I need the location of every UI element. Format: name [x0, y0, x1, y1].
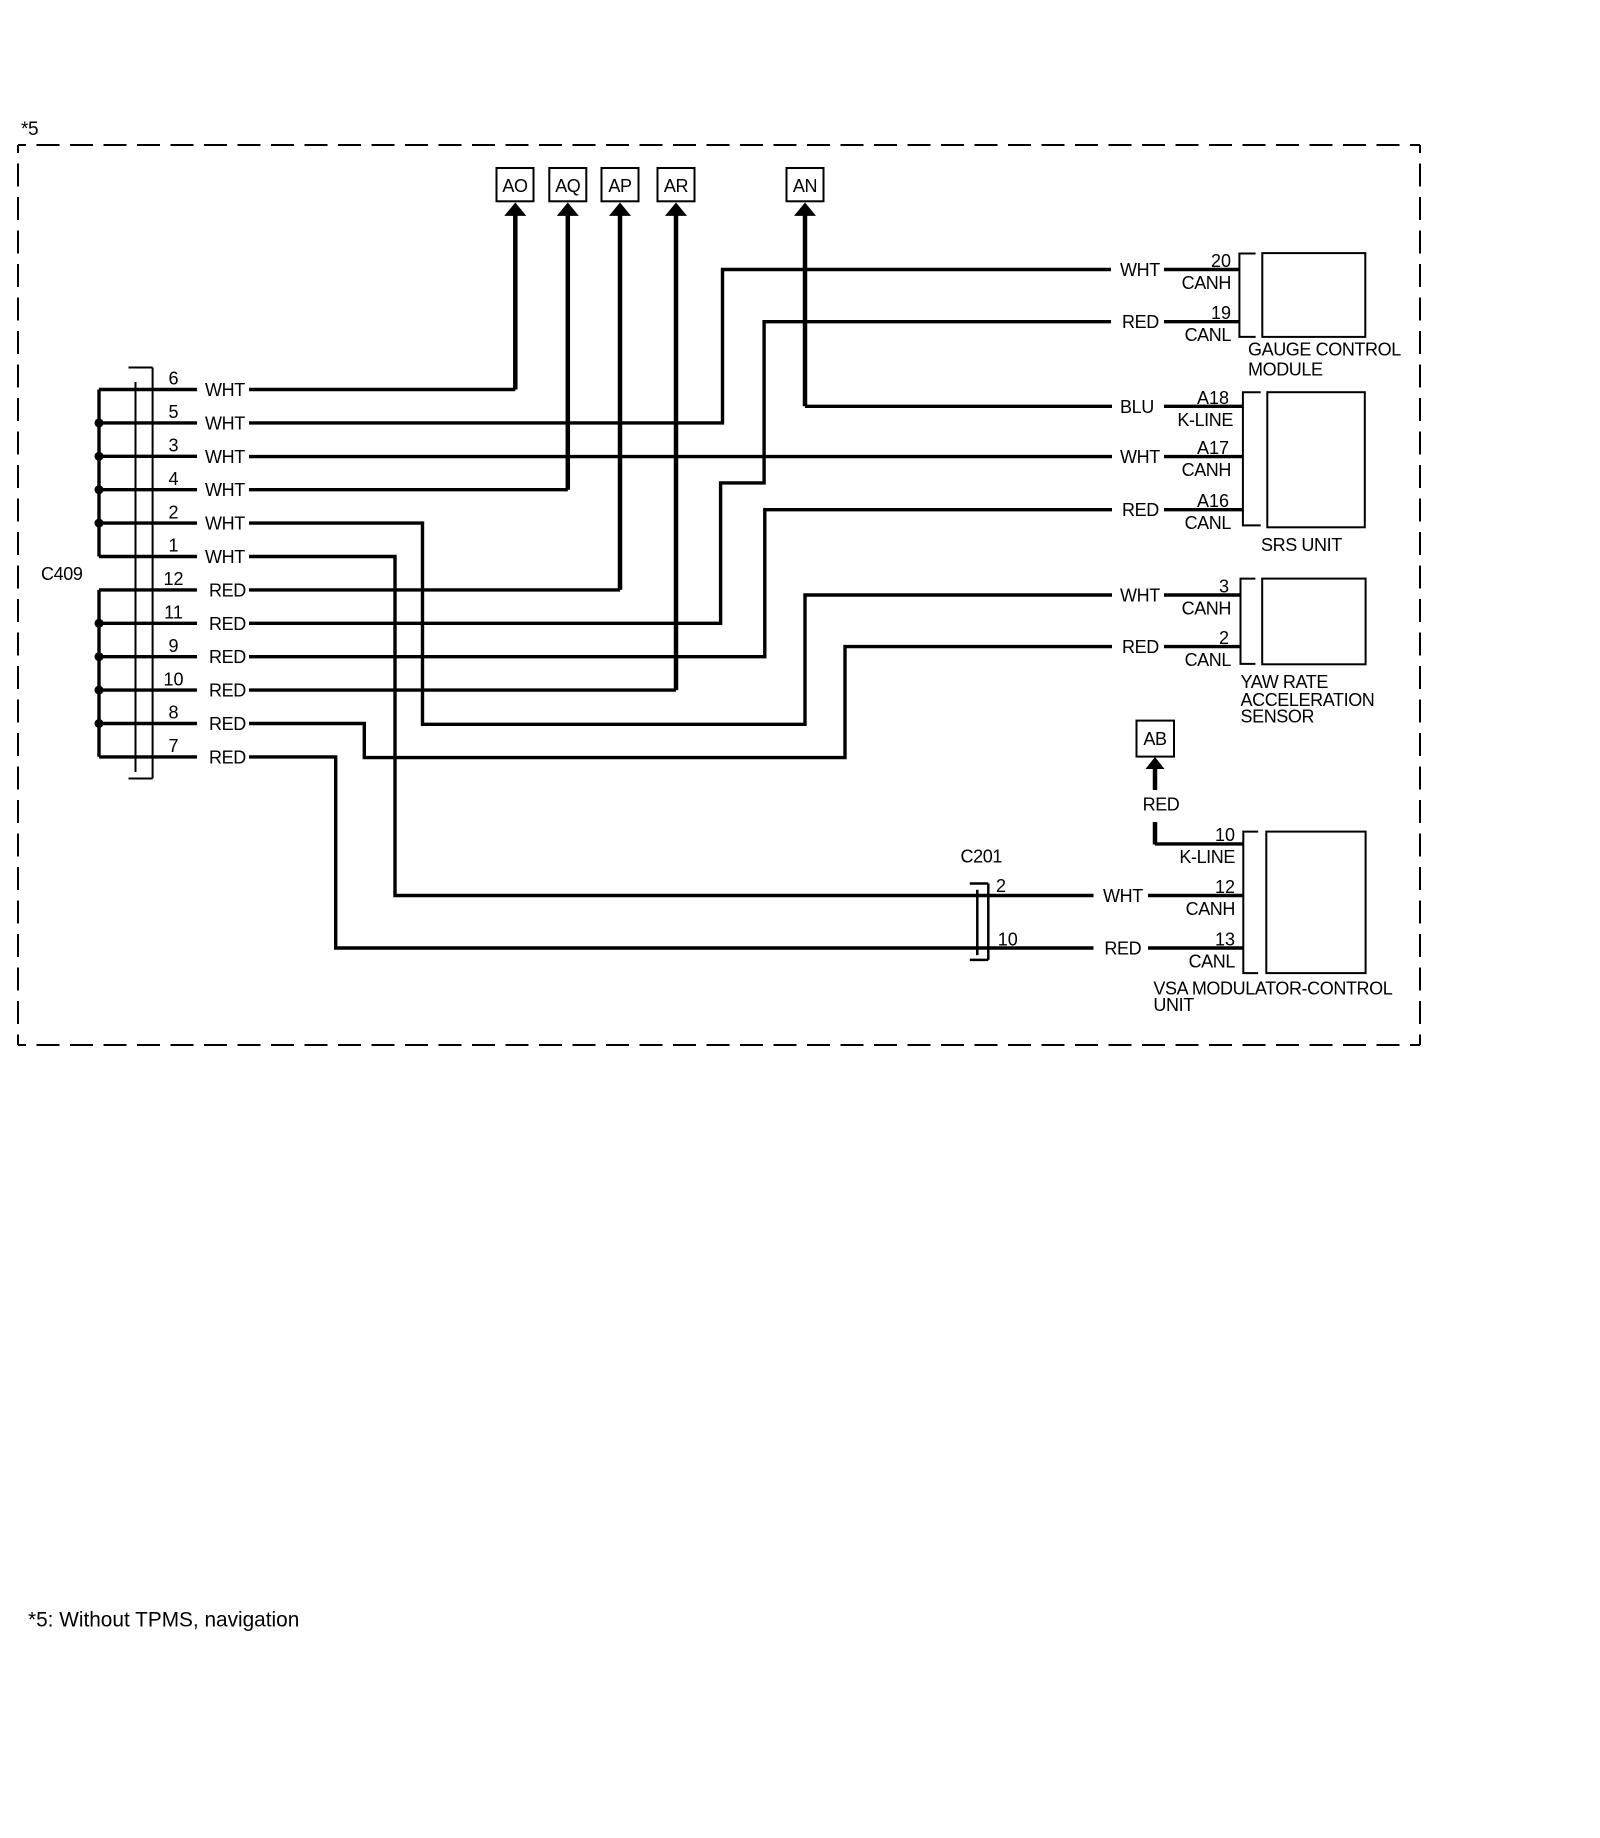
svg-text:10: 10	[163, 669, 183, 689]
svg-text:WHT: WHT	[205, 447, 245, 467]
wire VSA CANH right segment	[1148, 894, 1243, 897]
svg-text:19: 19	[1211, 303, 1231, 323]
connector box AR	[658, 168, 695, 201]
svg-text:8: 8	[168, 703, 178, 723]
svg-text:RED: RED	[209, 614, 246, 634]
svg-text:AB: AB	[1143, 729, 1167, 749]
svg-text:12: 12	[163, 569, 183, 589]
wire VSA CANL right segment	[1148, 946, 1243, 949]
connector box AN	[787, 168, 824, 201]
svg-text:5: 5	[168, 402, 178, 422]
wire SRS K-LINE right segment	[1164, 405, 1243, 408]
svg-text:MODULE: MODULE	[1248, 360, 1323, 380]
svg-text:K-LINE: K-LINE	[1179, 847, 1235, 867]
svg-text:CANL: CANL	[1185, 325, 1232, 345]
pin 7 stub	[99, 755, 197, 758]
svg-text:1: 1	[168, 536, 178, 556]
svg-text:A18: A18	[1197, 388, 1229, 408]
bus wire upper (pins 6-1)	[97, 390, 100, 557]
svg-text:AR: AR	[664, 176, 689, 196]
svg-text:RED: RED	[1122, 500, 1159, 520]
svg-text:YAW RATE: YAW RATE	[1241, 672, 1329, 692]
svg-text:CANH: CANH	[1182, 599, 1231, 619]
connector box AQ	[549, 168, 586, 201]
svg-text:RED: RED	[209, 681, 246, 701]
svg-text:WHT: WHT	[205, 547, 245, 567]
junction dot pin 9	[95, 652, 104, 661]
junction dot pin 3	[95, 452, 104, 461]
svg-text:CANH: CANH	[1182, 460, 1231, 480]
svg-text:AQ: AQ	[555, 176, 581, 196]
wire pin12 to AP	[249, 588, 620, 591]
svg-text:7: 7	[168, 736, 178, 756]
svg-text:WHT: WHT	[205, 514, 245, 534]
pin 2 stub	[99, 521, 197, 524]
svg-text:AN: AN	[793, 176, 817, 196]
arrow to AO	[504, 203, 526, 390]
connector box AO	[497, 168, 534, 201]
yaw sensor bracket	[1241, 579, 1256, 664]
svg-text:RED: RED	[1122, 637, 1159, 657]
wire pin5 to gauge CANH	[249, 270, 1111, 423]
svg-text:RED: RED	[209, 714, 246, 734]
svg-text:2: 2	[1219, 628, 1229, 648]
wire pin1 to C201 pin2	[249, 557, 1094, 896]
SRS unit box	[1267, 392, 1365, 527]
svg-text:10: 10	[1215, 825, 1235, 845]
wire SRS CANL right segment	[1164, 508, 1243, 511]
svg-text:CANH: CANH	[1186, 899, 1235, 919]
svg-text:2: 2	[168, 502, 178, 522]
pin 12 stub	[99, 588, 197, 591]
junction dot pin 4	[95, 485, 104, 494]
connector C409 symbol	[129, 368, 153, 779]
svg-text:AO: AO	[502, 176, 528, 196]
svg-text:SRS UNIT: SRS UNIT	[1261, 535, 1342, 555]
pin 4 stub	[99, 488, 197, 491]
pin 8 stub	[99, 722, 197, 725]
svg-text:RED: RED	[1122, 312, 1159, 332]
svg-text:WHT: WHT	[205, 413, 245, 433]
pin 3 stub	[99, 455, 197, 458]
svg-text:RED: RED	[209, 747, 246, 767]
junction dot pin 2	[95, 519, 104, 528]
svg-text:C201: C201	[961, 847, 1003, 867]
svg-text:UNIT: UNIT	[1153, 995, 1194, 1015]
svg-text:WHT: WHT	[1103, 886, 1143, 906]
dashed frame border	[18, 145, 1420, 1045]
VSA bracket	[1243, 832, 1258, 974]
wire gauge CANH right segment	[1164, 268, 1239, 271]
svg-text:RED: RED	[1104, 939, 1141, 959]
pin 1 stub	[99, 555, 197, 558]
gauge control module bracket	[1239, 254, 1255, 337]
bus wire lower (pins 12-7)	[97, 590, 100, 757]
arrow to AN	[794, 203, 816, 407]
wire pin2 to yaw CANH	[249, 523, 1112, 724]
svg-text:SENSOR: SENSOR	[1241, 707, 1315, 727]
svg-text:WHT: WHT	[205, 480, 245, 500]
wire yaw CANL right segment	[1164, 645, 1241, 648]
yaw sensor box	[1262, 579, 1365, 665]
svg-text:CANL: CANL	[1185, 513, 1232, 533]
svg-text:CANH: CANH	[1182, 273, 1231, 293]
wire pin8 to yaw CANL	[249, 647, 1112, 758]
wire pin11 to gauge CANL	[249, 322, 1111, 624]
connector C201 symbol	[970, 884, 989, 960]
junction dot pin 5	[95, 418, 104, 427]
svg-text:*5: *5	[21, 119, 38, 140]
wire pin7 to C201 pin10	[249, 757, 1094, 948]
arrow to AQ	[557, 203, 579, 490]
svg-text:WHT: WHT	[205, 380, 245, 400]
SRS unit bracket	[1243, 392, 1261, 525]
svg-text:11: 11	[164, 603, 183, 623]
pin 6 stub	[99, 388, 197, 391]
wire pin9 to SRS CANL	[249, 510, 1112, 657]
svg-text:20: 20	[1211, 251, 1231, 271]
wire pin3 to SRS CANH	[249, 455, 1112, 458]
VSA box	[1266, 832, 1365, 974]
connector box AP	[602, 168, 639, 201]
svg-text:10: 10	[998, 929, 1018, 949]
wire pin4 to AQ	[249, 488, 568, 491]
svg-text:RED: RED	[1143, 795, 1180, 815]
arrow into AB	[1146, 757, 1165, 790]
wire AN to SRS K-LINE	[805, 405, 1112, 408]
svg-text:CANL: CANL	[1185, 650, 1232, 670]
pin 10 stub	[99, 688, 197, 691]
arrow to AP	[609, 203, 631, 590]
pin 11 stub	[99, 622, 197, 625]
svg-text:2: 2	[996, 876, 1006, 896]
svg-text:AP: AP	[608, 176, 632, 196]
wire pin10 to AR	[249, 688, 676, 691]
svg-text:9: 9	[168, 636, 178, 656]
arrow to AR	[665, 203, 687, 691]
wire SRS CANH right segment	[1164, 455, 1243, 458]
svg-text:13: 13	[1215, 930, 1235, 950]
wire gauge CANL right segment	[1164, 320, 1239, 323]
pin 5 stub	[99, 421, 197, 424]
svg-text:GAUGE CONTROL: GAUGE CONTROL	[1248, 340, 1401, 360]
svg-text:RED: RED	[209, 647, 246, 667]
wire yaw CANH right segment	[1164, 593, 1241, 596]
svg-text:RED: RED	[209, 580, 246, 600]
svg-text:C409: C409	[41, 564, 83, 584]
junction dot pin 10	[95, 686, 104, 695]
svg-text:WHT: WHT	[1120, 260, 1160, 280]
svg-text:4: 4	[168, 469, 178, 489]
svg-text:6: 6	[168, 369, 178, 389]
svg-text:BLU: BLU	[1120, 397, 1154, 417]
svg-text:*5: Without TPMS, navigation: *5: Without TPMS, navigation	[28, 1609, 299, 1632]
junction dot pin 8	[95, 719, 104, 728]
svg-text:WHT: WHT	[1120, 586, 1160, 606]
pin 9 stub	[99, 655, 197, 658]
connector box AB	[1137, 721, 1175, 757]
svg-text:A16: A16	[1197, 491, 1229, 511]
svg-text:A17: A17	[1197, 438, 1229, 458]
wire pin6 to AO	[249, 388, 515, 391]
svg-text:3: 3	[168, 436, 178, 456]
svg-text:WHT: WHT	[1120, 447, 1160, 467]
wire AB to VSA K-LINE	[1153, 822, 1158, 845]
junction dot pin 11	[95, 619, 104, 628]
svg-text:K-LINE: K-LINE	[1177, 410, 1233, 430]
gauge control module box	[1262, 253, 1365, 337]
svg-text:3: 3	[1219, 577, 1229, 597]
svg-text:12: 12	[1215, 877, 1235, 897]
svg-text:CANL: CANL	[1189, 952, 1236, 972]
